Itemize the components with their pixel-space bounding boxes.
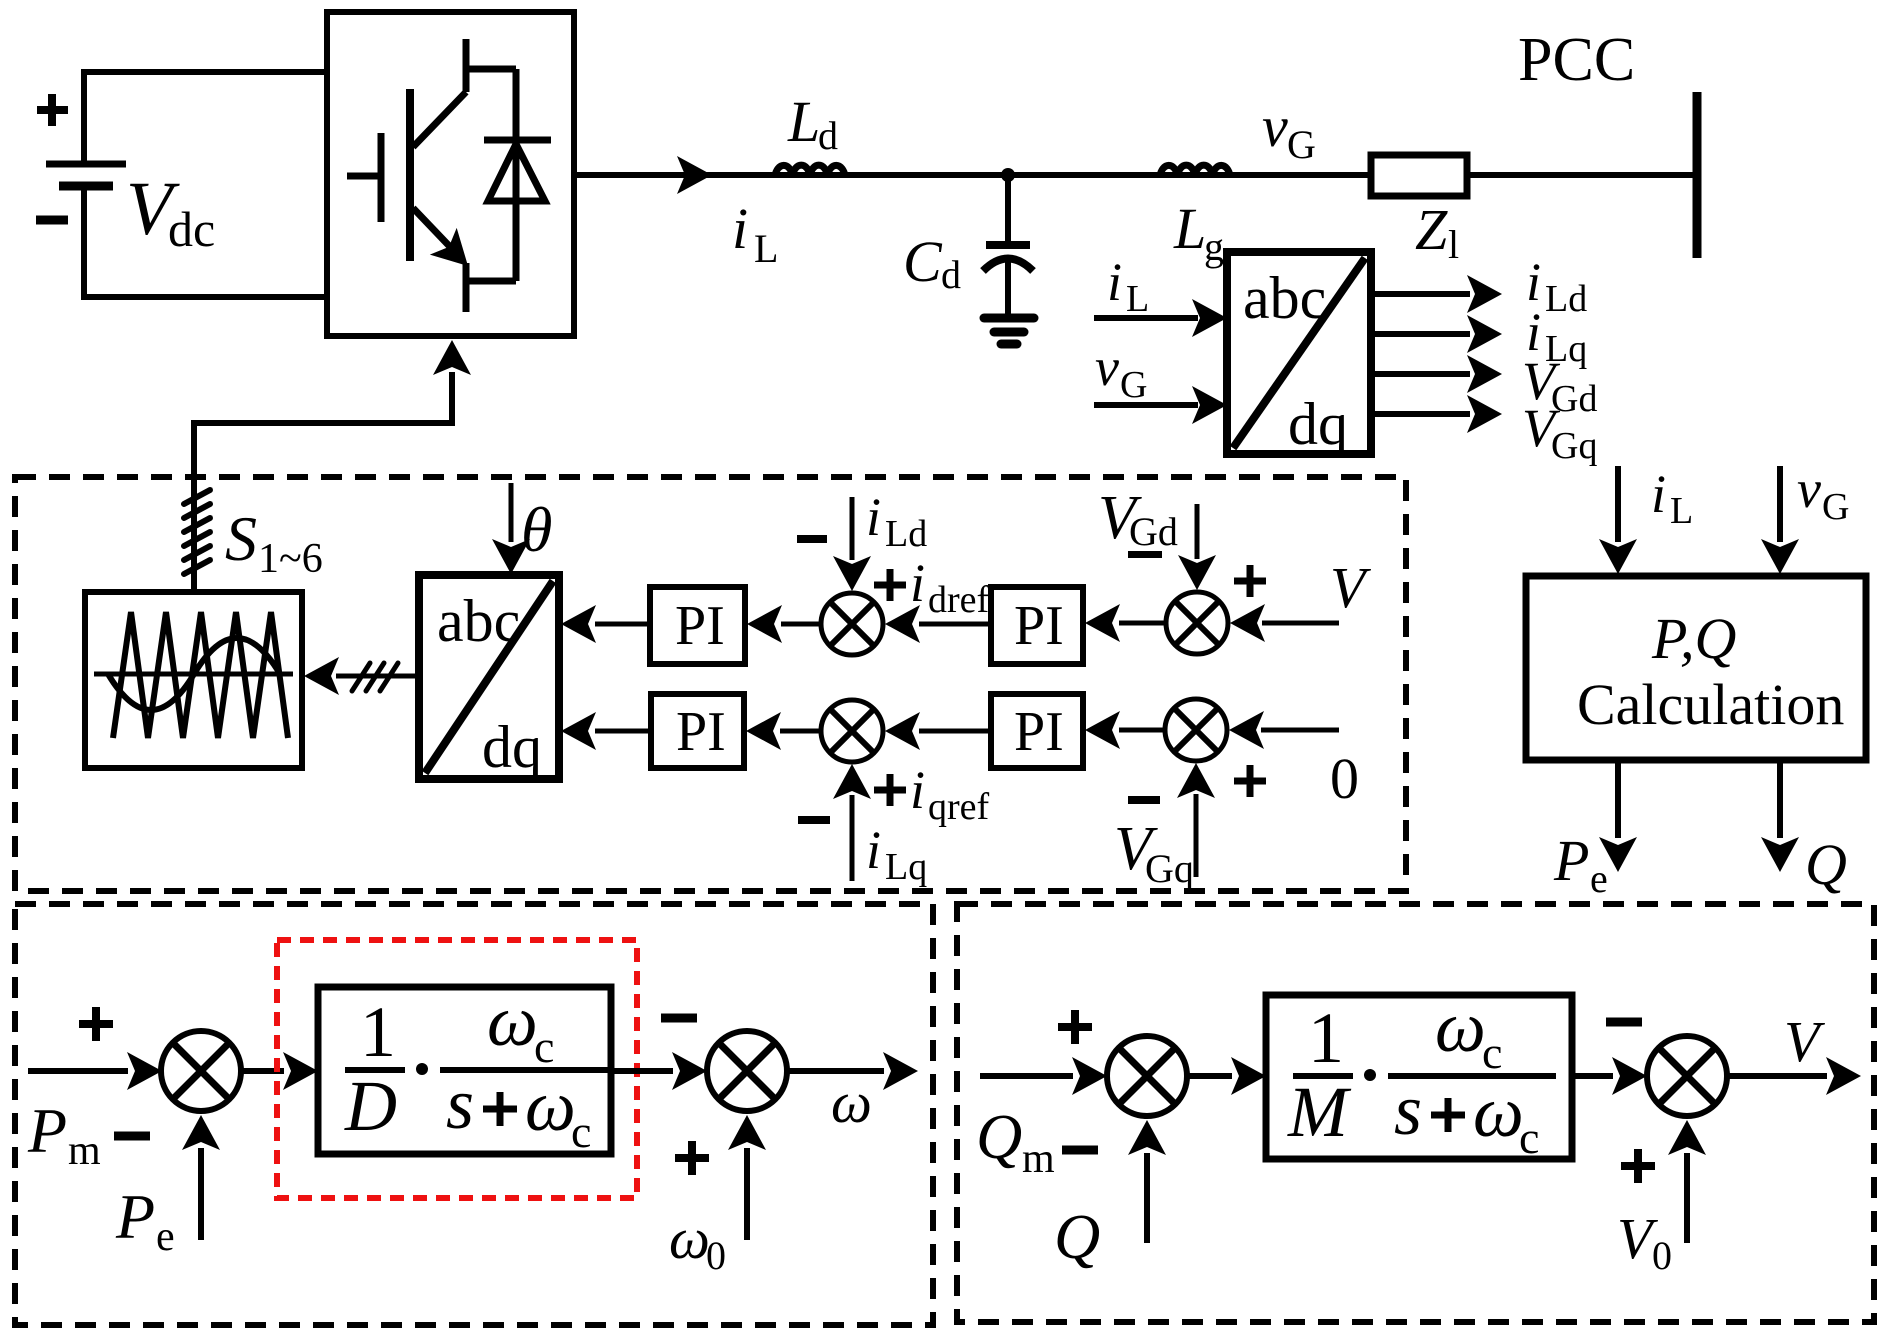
wire inverter output bus <box>574 172 1697 178</box>
label 1/D fraction <box>344 992 405 1146</box>
wire V0 into SQ2 <box>1684 1153 1690 1243</box>
label VGq feedback <box>1114 815 1194 891</box>
svg-text:G: G <box>1120 364 1147 406</box>
label iqref <box>910 760 990 828</box>
svg-text:ω: ω <box>487 981 538 1061</box>
wire Pe into SP1 <box>198 1148 204 1240</box>
transfer function block 1/M <box>1266 995 1572 1159</box>
svg-text:ω: ω <box>1473 1072 1524 1152</box>
label Ld <box>787 89 838 158</box>
wire battery bottom to inverter <box>84 190 330 297</box>
inverter U1 box <box>327 12 574 336</box>
svg-text:d: d <box>941 252 961 297</box>
wire M block to SQ2 <box>1572 1073 1613 1079</box>
svg-text:d: d <box>818 113 838 158</box>
svg-text:C: C <box>903 229 943 294</box>
svg-text:abc: abc <box>437 588 520 654</box>
wire PI3 to U4 <box>595 729 651 734</box>
label iLd feedback <box>866 487 927 555</box>
svg-text:l: l <box>1448 222 1459 267</box>
minus sign SP1 <box>114 1132 150 1141</box>
bundle marks on PWM wire <box>352 663 398 691</box>
inductor Lg <box>1160 165 1230 176</box>
svg-text:0: 0 <box>1330 746 1359 811</box>
svg-text:PI: PI <box>675 595 725 657</box>
minus sign S1d <box>797 535 827 543</box>
abc/dq transform U2 <box>1227 252 1371 457</box>
label iL input <box>1107 252 1149 320</box>
wire iLq into S1q <box>850 795 855 881</box>
svg-text:Q: Q <box>976 1101 1022 1172</box>
wire SQ1 to M block <box>1187 1073 1232 1079</box>
wire battery top to inverter <box>84 72 330 161</box>
svg-text:D: D <box>344 1066 397 1146</box>
wire S2d to PI2 <box>1119 621 1166 626</box>
svg-text:1: 1 <box>360 992 396 1072</box>
label Lg <box>1173 196 1224 269</box>
plus sign SP2 <box>675 1141 709 1175</box>
wire output iLq <box>1371 302 1587 370</box>
svg-text:Gd: Gd <box>1129 509 1178 554</box>
label VGd feedback <box>1098 484 1178 558</box>
svg-text:Lq: Lq <box>885 846 927 888</box>
svg-text:i: i <box>1651 464 1666 524</box>
svg-text:θ: θ <box>521 494 552 565</box>
svg-text:L: L <box>787 89 820 154</box>
svg-text:P: P <box>115 1181 155 1252</box>
PCC bus bar <box>1693 92 1702 258</box>
plus sign P loop input <box>79 1007 113 1041</box>
multiply dot <box>416 1063 428 1075</box>
arrow iL direction <box>677 156 712 194</box>
wire V output <box>1727 1073 1827 1079</box>
capacitor Cd <box>983 245 1033 316</box>
label Zl <box>1415 197 1459 267</box>
diode D1 inside inverter <box>484 69 551 281</box>
minus sign S2q <box>1128 796 1160 804</box>
svg-text:0: 0 <box>1652 1233 1672 1278</box>
svg-text:m: m <box>1022 1136 1055 1182</box>
summing junction SQ1 <box>1107 1036 1187 1116</box>
plus sign S2q <box>1234 765 1266 797</box>
wire PI4 to S1q <box>919 729 991 734</box>
wire output VGq <box>1371 395 1597 467</box>
svg-text:g: g <box>1204 224 1224 269</box>
svg-text:PI: PI <box>676 701 726 763</box>
svg-text:qref: qref <box>928 786 990 828</box>
svg-text:abc: abc <box>1243 265 1326 331</box>
summing junction SP2 <box>707 1031 787 1111</box>
wire PI2 to S1d <box>919 622 991 627</box>
svg-text:s: s <box>446 1064 474 1144</box>
svg-text:S: S <box>225 503 257 574</box>
P,Q calculation block U3 <box>1526 576 1866 760</box>
wire output iLd <box>1371 252 1587 320</box>
wire S2q to PI4 <box>1119 728 1165 733</box>
svg-text:v: v <box>1262 94 1288 159</box>
svg-text:i: i <box>1107 252 1122 312</box>
plus sign S1d <box>874 569 906 601</box>
label wc/(s+wc) fraction <box>440 981 608 1157</box>
plus sign S1q <box>874 774 906 806</box>
svg-text:G: G <box>1822 486 1849 528</box>
svg-text:M: M <box>1287 1072 1352 1152</box>
summing junction S1d <box>821 593 883 655</box>
node A junction dot <box>1001 168 1015 182</box>
svg-text:ω: ω <box>1435 987 1486 1067</box>
svg-text:dc: dc <box>168 201 215 257</box>
summing junction S1q <box>821 700 883 762</box>
switch bundle marks S1~6 <box>184 490 210 574</box>
svg-text:L: L <box>1670 490 1693 532</box>
wire U4 to PWM <box>336 674 419 679</box>
wire omega output <box>787 1068 884 1074</box>
wire Qm input <box>980 1073 1073 1079</box>
wire Q into SQ1 <box>1144 1153 1150 1243</box>
svg-text:dref: dref <box>928 579 990 621</box>
svg-text:Q: Q <box>1054 1201 1100 1272</box>
transfer function block 1/D <box>318 987 611 1154</box>
svg-text:Ld: Ld <box>885 513 927 555</box>
wire iLd into S1d <box>850 497 855 560</box>
wire VGd into S2d <box>1195 504 1200 559</box>
wire iL input to U2 <box>1094 315 1198 321</box>
svg-text:Calculation: Calculation <box>1577 672 1844 737</box>
dashed border current control loop <box>15 477 1406 891</box>
svg-text:c: c <box>1482 1027 1502 1078</box>
label Vdc <box>126 167 215 257</box>
IGBT emitter arrow <box>430 228 482 280</box>
svg-text:1~6: 1~6 <box>258 536 323 582</box>
wire iL into PQ block <box>1599 464 1693 574</box>
label idref <box>910 553 990 621</box>
label V0 <box>1617 1206 1672 1278</box>
svg-text:c: c <box>571 1106 591 1157</box>
wire omega0 into SP2 <box>744 1148 750 1240</box>
svg-text:dq: dq <box>1288 391 1348 457</box>
label Cd <box>903 229 961 297</box>
arrow into inverter bottom <box>433 340 471 375</box>
label vG <box>1262 94 1316 167</box>
PWM modulator block <box>85 592 302 768</box>
dashed border Q droop loop <box>957 904 1874 1322</box>
svg-text:1: 1 <box>1308 998 1344 1078</box>
label iL <box>732 196 778 271</box>
plus sign SQ2 <box>1621 1149 1655 1183</box>
svg-text:c: c <box>534 1021 554 1072</box>
svg-text:i: i <box>910 553 925 613</box>
svg-text:Gq: Gq <box>1551 425 1597 467</box>
svg-text:e: e <box>156 1214 175 1260</box>
svg-text:L: L <box>1126 278 1149 320</box>
wire D block to SP2 <box>611 1068 673 1074</box>
svg-text:Ld: Ld <box>1545 278 1587 320</box>
wire 0 input to S2q <box>1261 728 1339 733</box>
wire Pe output <box>1553 760 1637 901</box>
wire vG into PQ block <box>1761 459 1849 574</box>
svg-text:P: P <box>27 1095 67 1166</box>
PI controller d-axis voltage <box>991 587 1083 664</box>
PI controller q-axis voltage <box>991 694 1083 768</box>
svg-text:PCC: PCC <box>1518 26 1635 94</box>
plus sign S2d <box>1234 565 1266 597</box>
label iLq feedback <box>866 820 927 888</box>
summing junction S2q <box>1165 699 1227 761</box>
svg-text:ω: ω <box>669 1206 710 1271</box>
label Pe input <box>115 1181 175 1260</box>
wire S1q to PI3 <box>780 729 821 734</box>
minus sign SP2 <box>661 1014 697 1023</box>
svg-text:Gq: Gq <box>1145 846 1194 891</box>
svg-text:e: e <box>1590 856 1608 901</box>
battery Vdc <box>46 164 126 186</box>
multiply dot right <box>1364 1069 1376 1081</box>
minus sign SQ1 <box>1062 1146 1098 1155</box>
wire Pm input <box>28 1068 128 1074</box>
PI controller q-axis current <box>651 694 744 768</box>
svg-text:v: v <box>1797 459 1821 519</box>
dashed border P droop loop <box>15 904 933 1325</box>
wire output VGd <box>1371 351 1597 420</box>
wire vG input to U2 <box>1094 402 1198 408</box>
label Pm <box>27 1095 101 1174</box>
svg-text:v: v <box>1095 337 1119 397</box>
svg-text:L: L <box>1173 196 1206 261</box>
label S1~6 <box>225 503 323 582</box>
svg-text:i: i <box>866 487 881 547</box>
wire gate drive from PWM to inverter <box>194 372 452 592</box>
label wc/(s+wc) fraction right <box>1388 987 1556 1163</box>
battery minus sign <box>36 216 68 225</box>
svg-text:Gd: Gd <box>1551 378 1597 420</box>
svg-text:Q: Q <box>1805 832 1847 897</box>
wire theta input <box>509 483 514 542</box>
wire SP1 to D block <box>241 1068 284 1074</box>
minus sign S1q <box>798 816 830 824</box>
battery plus sign <box>37 94 68 126</box>
svg-text:G: G <box>1287 122 1316 167</box>
control abc/dq transform U4 <box>419 575 559 780</box>
label omega0 <box>669 1206 726 1278</box>
summing junction SP1 <box>161 1031 241 1111</box>
svg-text:P,Q: P,Q <box>1651 606 1736 671</box>
svg-text:P: P <box>1553 828 1589 893</box>
IGBT Q1 inside inverter <box>347 39 516 312</box>
svg-text:c: c <box>1519 1112 1539 1163</box>
svg-text:s: s <box>1394 1070 1422 1150</box>
plus sign Q loop input <box>1058 1010 1092 1044</box>
wire VGq into S2q <box>1194 794 1199 877</box>
svg-text:i: i <box>866 820 881 880</box>
wire PI1 to U4 <box>595 622 650 627</box>
svg-text:m: m <box>68 1128 101 1174</box>
label 1/M fraction <box>1287 998 1353 1152</box>
svg-text:dq: dq <box>482 714 542 780</box>
svg-text:L: L <box>754 226 778 271</box>
PI controller d-axis current <box>650 587 745 664</box>
svg-text:0: 0 <box>706 1233 726 1278</box>
ground <box>984 318 1034 344</box>
svg-text:PI: PI <box>1014 595 1064 657</box>
inductor Ld <box>775 165 845 176</box>
svg-text:PI: PI <box>1014 701 1064 763</box>
svg-text:i: i <box>910 760 925 820</box>
wire V input to S2d <box>1262 621 1339 626</box>
label vG input <box>1095 337 1147 406</box>
red dashed highlight box <box>277 940 637 1198</box>
label Qm <box>976 1101 1055 1182</box>
summing junction SQ2 <box>1647 1036 1727 1116</box>
summing junction S2d <box>1166 592 1228 654</box>
impedance Zl box <box>1371 155 1467 196</box>
svg-text:ω: ω <box>831 1070 872 1135</box>
svg-text:Z: Z <box>1415 197 1448 262</box>
wire Q output <box>1761 760 1847 897</box>
wire S1d to PI1 <box>781 622 821 627</box>
svg-text:i: i <box>732 196 748 261</box>
wire node to capacitor <box>1005 175 1011 241</box>
minus sign SQ2 <box>1606 1018 1642 1027</box>
svg-text:ω: ω <box>525 1066 576 1146</box>
